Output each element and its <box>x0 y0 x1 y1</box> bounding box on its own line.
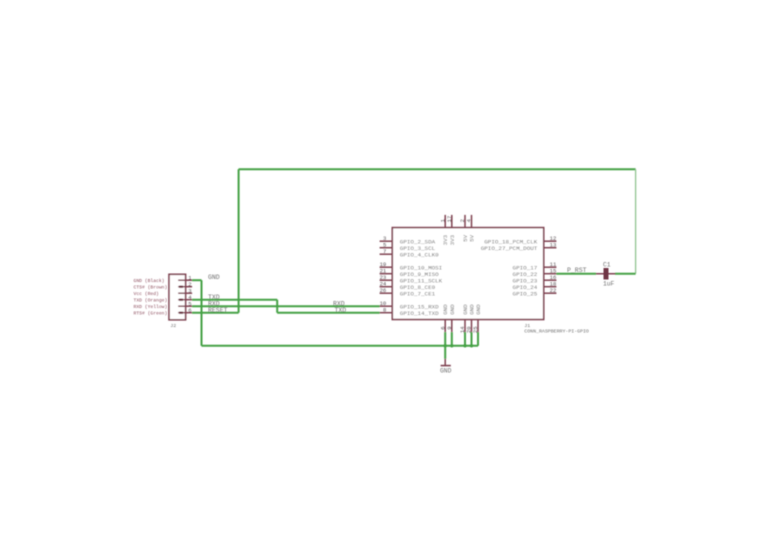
J1 name label <box>524 323 530 329</box>
J1 pin 13 GPIO_27_PCM_DOUT <box>481 242 557 252</box>
wire P_RST net: J1 pin15 to C1 <box>556 273 596 275</box>
J1 pin 2 5V (top) <box>459 215 469 242</box>
svg-text:RTS# (Green): RTS# (Green) <box>134 311 168 317</box>
node GND label at J2 <box>208 274 220 281</box>
svg-text:TXD (Orange): TXD (Orange) <box>134 298 168 304</box>
junction dots on GND bus <box>444 344 474 347</box>
J1 pin 17 3V3 (top) <box>446 215 456 246</box>
svg-text:GPIO_4_CLK0: GPIO_4_CLK0 <box>400 251 439 258</box>
J1 pin 19 GPIO_10_MOSI <box>380 261 443 271</box>
J1 pin 11 GPIO_17 <box>513 261 557 271</box>
wire GND drop to ground symbol <box>444 346 446 359</box>
svg-text:13: 13 <box>550 242 557 249</box>
J1 pin 8 GPIO_14_TXD <box>380 307 440 317</box>
capacitor C1 <box>596 268 615 280</box>
node RXD label at J1 <box>333 301 345 308</box>
wire GND net: J2 pin1 to ground bus <box>192 280 478 346</box>
svg-text:C1: C1 <box>603 262 611 269</box>
J1 pin 10 GPIO_15_RXD <box>380 300 440 310</box>
svg-text:1uF: 1uF <box>603 281 615 288</box>
connector J2 <box>169 274 186 320</box>
J2 pin 6 RTS# (Green) <box>134 307 193 317</box>
svg-text:J2: J2 <box>170 323 176 329</box>
J1 pin 25 GND (bottom) <box>472 304 482 333</box>
node RESET label at J2 <box>208 307 228 314</box>
J2 pin 3 Vcc (Red) <box>134 288 193 298</box>
svg-text:9: 9 <box>446 326 453 329</box>
svg-text:8: 8 <box>383 307 386 314</box>
svg-text:RXD (Yellow): RXD (Yellow) <box>134 304 168 310</box>
ground <box>440 359 452 375</box>
svg-text:5V: 5V <box>469 234 476 242</box>
svg-text:6: 6 <box>188 307 191 314</box>
J2 pin 4 TXD (Orange) <box>134 294 193 304</box>
svg-text:GND (Black): GND (Black) <box>134 278 165 284</box>
svg-text:GPIO_27_PCM_DOUT: GPIO_27_PCM_DOUT <box>481 245 538 252</box>
J1 pin 3 GPIO_2_SDA <box>380 235 436 245</box>
J1 pin 23 GPIO_11_SCLK <box>380 274 443 284</box>
wire RESET net: J2 pin6 up and around to C1 <box>192 169 635 313</box>
wire TXD net: J2 pin4 to J1 GPIO_14_TXD <box>192 300 380 313</box>
J1 pin 9 GND (bottom) <box>446 304 456 332</box>
J1 pin 1 3V3 (top) <box>439 215 449 246</box>
IC J1 CONN_RASPBERRY-PI-GPIO <box>392 228 543 320</box>
svg-text:22: 22 <box>550 287 557 294</box>
svg-text:P_RST: P_RST <box>567 267 587 274</box>
svg-text:7: 7 <box>383 248 386 255</box>
J1 pin 4 5V (top) <box>466 215 476 242</box>
J1 pin 24 GPIO_8_CE0 <box>380 281 436 291</box>
svg-text:GND: GND <box>449 304 456 315</box>
svg-text:GND: GND <box>208 274 220 281</box>
wire RXD net: J2 pin5 to J1 GPIO_15_RXD <box>192 305 380 307</box>
node TXD label at J1 <box>335 307 347 314</box>
J1 pin 5 GPIO_3_SCL <box>380 242 436 252</box>
J1 pin 12 GPIO_18_PCM_CLK <box>484 235 556 245</box>
J1 pin 16 GPIO_23 <box>513 274 557 284</box>
J1 pin 21 GPIO_9_MISO <box>380 268 440 278</box>
J1 value label CONN_RASPBERRY-PI-GPIO <box>524 329 589 335</box>
wire GND bus drops from J1 bottom pins <box>445 332 478 346</box>
svg-text:Vcc (Red): Vcc (Red) <box>134 291 160 297</box>
J1 pin 20 GND (bottom) <box>466 304 476 333</box>
svg-text:17: 17 <box>446 216 453 223</box>
node TXD label at J2 <box>208 294 220 301</box>
svg-text:GPIO_14_TXD: GPIO_14_TXD <box>400 310 439 317</box>
svg-text:25: 25 <box>472 326 479 333</box>
J2 pin 2 CTS# (Brown) <box>134 281 193 291</box>
J1 pin 18 GPIO_24 <box>513 281 557 291</box>
node P_RST label <box>567 267 587 274</box>
svg-text:RESET: RESET <box>208 307 228 314</box>
C1 value label 1uF <box>603 281 615 288</box>
svg-text:26: 26 <box>380 287 387 294</box>
J2 name label <box>170 323 176 329</box>
node RXD label at J2 <box>208 301 220 308</box>
svg-text:GND: GND <box>440 368 452 375</box>
svg-text:RXD: RXD <box>333 301 345 308</box>
J1 pin 6 GND (bottom) <box>439 304 449 332</box>
svg-text:GPIO_7_CE1: GPIO_7_CE1 <box>400 290 436 297</box>
J1 pin 15 GPIO_22 <box>513 268 557 278</box>
J1 pin 7 GPIO_4_CLK0 <box>380 248 440 258</box>
svg-text:TXD: TXD <box>335 307 347 314</box>
J1 pin 26 GPIO_7_CE1 <box>380 287 436 297</box>
svg-text:CONN_RASPBERRY-PI-GPIO: CONN_RASPBERRY-PI-GPIO <box>524 329 589 335</box>
J1 pin 14 GND (bottom) <box>459 304 469 333</box>
C1 name label <box>603 262 611 269</box>
svg-text:GND: GND <box>475 304 482 315</box>
J2 pin 5 RXD (Yellow) <box>134 301 193 311</box>
svg-text:J1: J1 <box>524 323 530 329</box>
svg-text:CTS# (Brown): CTS# (Brown) <box>134 285 168 291</box>
J1 pin 22 GPIO_25 <box>513 287 557 297</box>
J2 pin 1 GND (Black) <box>134 275 193 285</box>
svg-text:GPIO_25: GPIO_25 <box>513 290 538 297</box>
svg-text:3V3: 3V3 <box>449 234 456 245</box>
